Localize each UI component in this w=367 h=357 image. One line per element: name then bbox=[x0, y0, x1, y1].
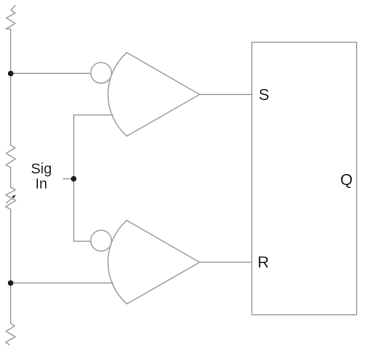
resistor R4 bbox=[6, 324, 16, 345]
wire node A to gate U1 input bbox=[11, 72, 91, 74]
gate U1 body bbox=[108, 53, 200, 137]
wire U1 output to S bbox=[200, 94, 252, 96]
wire U1 lower input bbox=[74, 114, 113, 116]
svg-text:Q: Q bbox=[340, 172, 352, 189]
resistor R1 bbox=[6, 5, 15, 29]
potentiometer R3 wiper arrow bbox=[6, 197, 13, 203]
wire bbox=[10, 168, 12, 188]
resistor R2 bbox=[6, 145, 16, 168]
wire bbox=[10, 29, 12, 145]
latch U3 box bbox=[252, 42, 357, 315]
junction node B bbox=[8, 280, 14, 286]
gate U2 input bubble bbox=[91, 230, 112, 251]
wire U2 upper input bbox=[74, 240, 91, 242]
svg-text:S: S bbox=[259, 87, 270, 104]
svg-text:R: R bbox=[258, 255, 270, 272]
wire vertical connector bbox=[73, 115, 75, 241]
potentiometer R3 bbox=[6, 187, 16, 209]
gate U1 input bubble bbox=[91, 63, 112, 84]
junction node Sig In bbox=[71, 176, 77, 182]
junction node A bbox=[8, 71, 14, 77]
svg-text:Sig: Sig bbox=[31, 161, 52, 177]
svg-text:In: In bbox=[35, 177, 47, 193]
wire bbox=[10, 209, 12, 323]
gate U2 body bbox=[108, 220, 200, 304]
wire Sig In stub bbox=[63, 178, 73, 180]
wire U2 output to R bbox=[200, 261, 252, 263]
wire node B to gate U2 lower input bbox=[11, 282, 113, 284]
